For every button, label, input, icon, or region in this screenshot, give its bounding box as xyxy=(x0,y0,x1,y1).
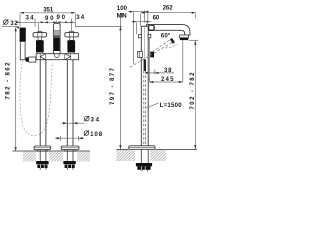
right handle xyxy=(65,31,79,53)
handshower head xyxy=(20,28,26,42)
side tabs on column xyxy=(139,34,142,37)
valve square side xyxy=(150,52,154,58)
spout arm side xyxy=(147,25,191,35)
leader line to handshower top xyxy=(2,26,20,28)
svg-text:100: 100 xyxy=(117,5,128,12)
chain dim line xyxy=(17,21,76,23)
phantom handle 60deg xyxy=(152,39,171,52)
extension stub right of 351 xyxy=(74,14,76,28)
hand shower hose dashed xyxy=(20,60,53,136)
dim 702-782 vertical xyxy=(189,39,198,41)
svg-text:60°: 60° xyxy=(161,33,171,40)
extension stub above column xyxy=(56,21,58,24)
flange side view xyxy=(129,146,155,150)
dim diam34 xyxy=(61,122,84,124)
holder arm xyxy=(29,57,36,62)
left leg xyxy=(39,60,41,146)
svg-text:60: 60 xyxy=(153,14,160,21)
floor left view xyxy=(12,150,90,152)
dim 797-877 vertical xyxy=(119,15,121,149)
extension stub x35 xyxy=(34,19,36,27)
diverter knob left of column xyxy=(138,52,143,58)
aerator xyxy=(180,35,189,38)
extension stub above right handle xyxy=(71,19,73,32)
handshower holder black clamp xyxy=(26,57,29,61)
svg-text:MIN: MIN xyxy=(117,12,127,19)
dim diam108 xyxy=(55,137,84,139)
flange left leg xyxy=(34,146,51,150)
svg-text:90: 90 xyxy=(45,15,54,22)
svg-text:108: 108 xyxy=(90,131,103,138)
svg-text:782 - 862: 782 - 862 xyxy=(4,62,11,100)
svg-text:262: 262 xyxy=(163,4,174,11)
spout column front xyxy=(53,24,60,54)
svg-text:32: 32 xyxy=(10,20,18,27)
nuts below floor left leg xyxy=(36,161,48,164)
column side view xyxy=(141,26,148,146)
extension stub left of 351 xyxy=(19,14,21,27)
chamfer at right leg xyxy=(65,54,71,60)
svg-text:34: 34 xyxy=(91,116,100,123)
svg-text:34: 34 xyxy=(26,15,35,22)
floor right view xyxy=(116,148,128,150)
flange right leg xyxy=(61,146,79,150)
dim 351 line xyxy=(20,12,76,14)
handshower handle xyxy=(20,42,25,60)
chamfer at left leg xyxy=(40,54,46,60)
dim 782-862 vertical xyxy=(15,28,17,151)
label diam 32 xyxy=(3,19,18,27)
svg-text:90: 90 xyxy=(57,14,66,21)
extension stub above left handle xyxy=(38,23,40,31)
ring on bar at column xyxy=(54,53,59,57)
svg-text:797 - 877: 797 - 877 xyxy=(109,67,116,105)
body bar xyxy=(36,54,78,60)
dashed hose inside column xyxy=(144,25,146,59)
svg-text:351: 351 xyxy=(43,6,54,13)
L=1500 label xyxy=(146,103,159,108)
right leg xyxy=(66,60,68,146)
nuts below floor right leg xyxy=(63,161,75,164)
svg-text:702 - 782: 702 - 782 xyxy=(189,72,196,110)
spout root fitting xyxy=(149,25,155,30)
left leg through floor xyxy=(39,150,41,161)
svg-text:34: 34 xyxy=(76,14,85,21)
left handle xyxy=(33,31,47,53)
svg-text:L=1500: L=1500 xyxy=(160,102,183,109)
nuts below floor right view xyxy=(136,163,152,166)
pipe through floor right view xyxy=(140,149,142,163)
